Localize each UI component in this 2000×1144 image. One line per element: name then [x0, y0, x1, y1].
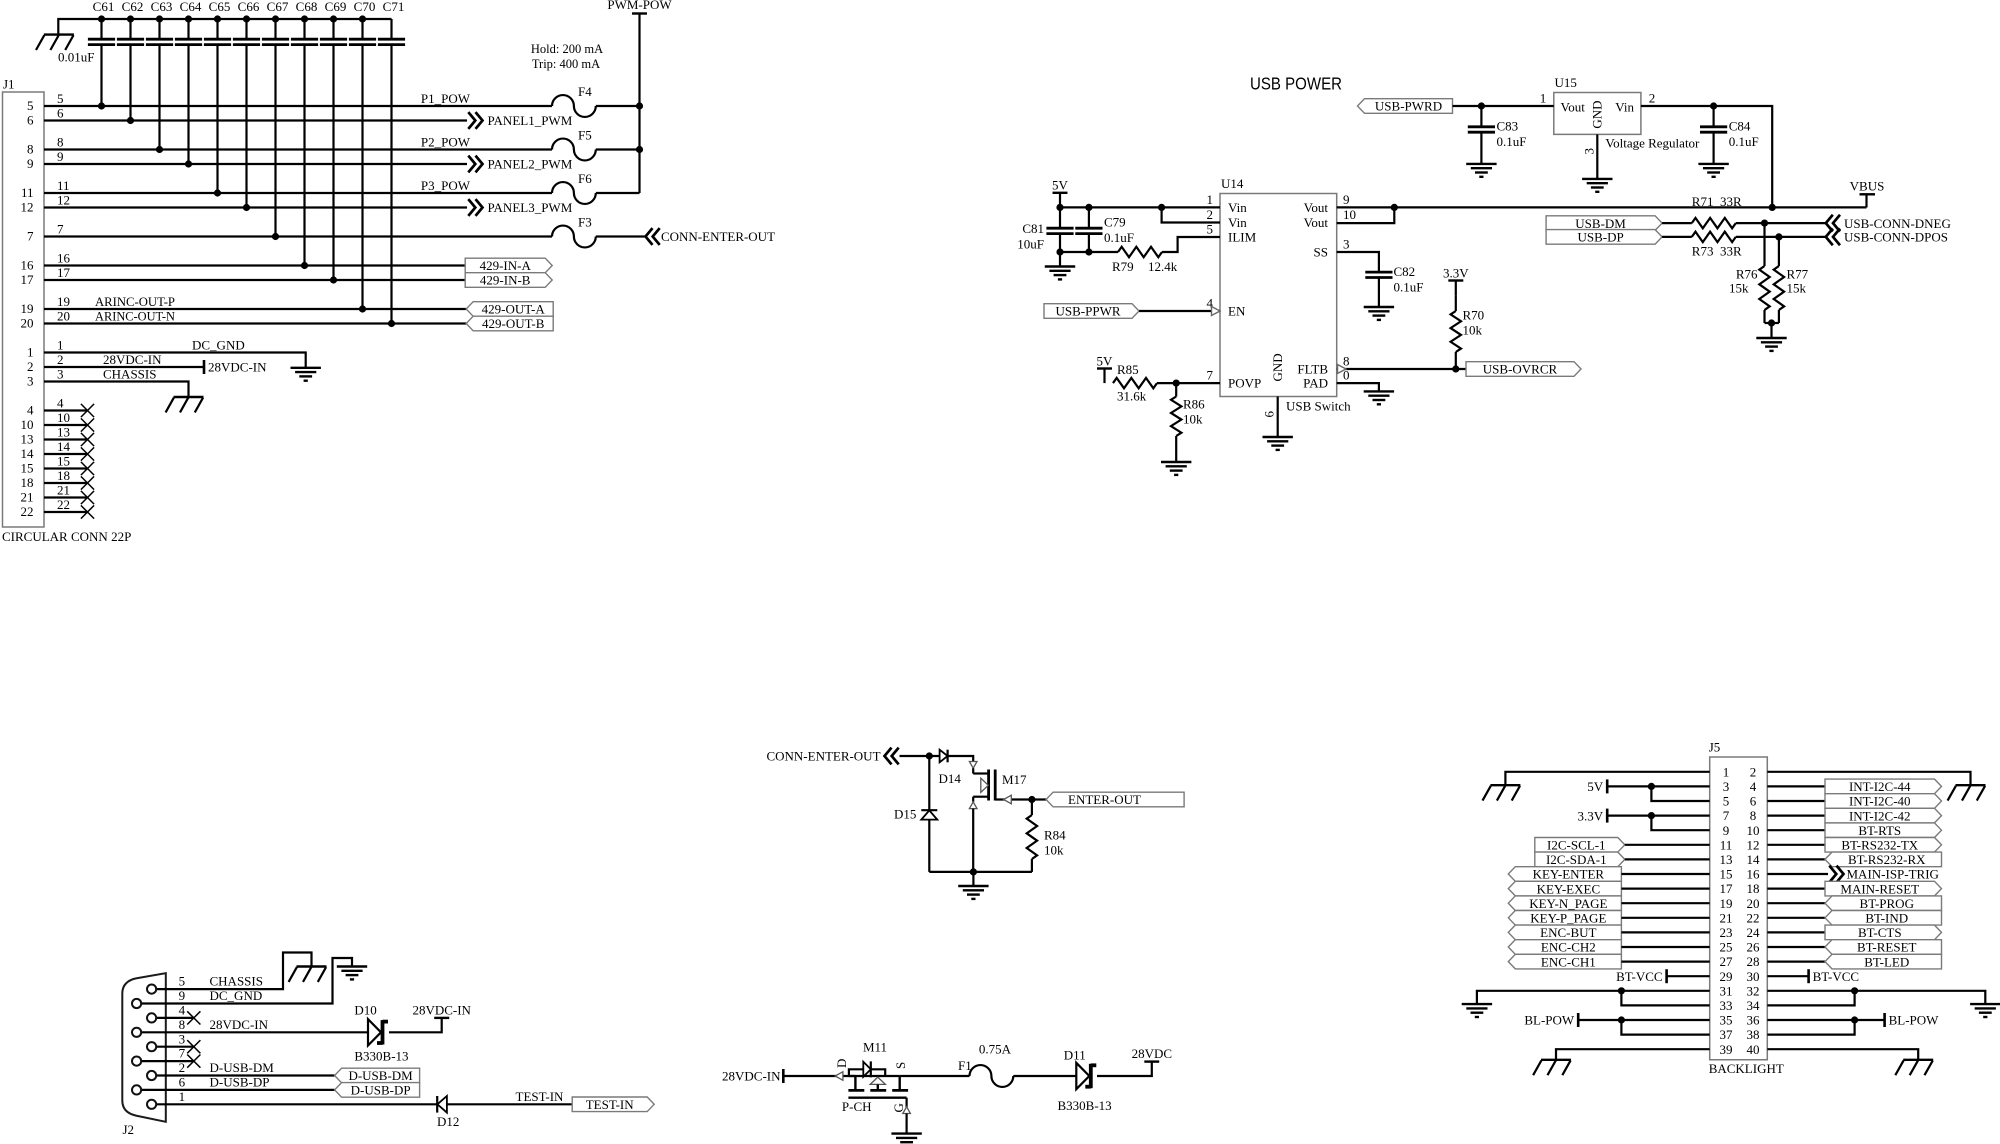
J2 pin6 number	[179, 1075, 186, 1090]
U14 left pin names	[1228, 200, 1261, 391]
junction C79 bottom	[1085, 248, 1092, 255]
svg-text:R76: R76	[1736, 266, 1758, 281]
connector J1 body	[3, 77, 45, 528]
svg-text:6: 6	[1262, 411, 1277, 418]
svg-text:R70: R70	[1463, 308, 1485, 323]
J1 pin1 numbers	[27, 337, 64, 359]
earth ground R76/R77	[1756, 338, 1786, 351]
svg-text:8: 8	[57, 134, 64, 149]
svg-text:C62: C62	[122, 0, 144, 14]
wire USB-DM to R71	[1662, 222, 1692, 224]
svg-text:USB-CONN-DNEG: USB-CONN-DNEG	[1844, 216, 1951, 231]
power flag BL-POW (right)	[1885, 1013, 1940, 1028]
svg-text:3.3V: 3.3V	[1443, 265, 1469, 280]
wire U15 pin3 to ground	[1596, 134, 1598, 179]
svg-text:8: 8	[1750, 808, 1757, 823]
wire 28VDC-IN to M11 drain	[783, 1075, 855, 1077]
svg-text:13: 13	[1720, 852, 1733, 867]
wire J1 pin8 P2_POW	[44, 148, 640, 150]
wire 3.3V to J5 pin7	[1607, 814, 1710, 816]
svg-text:39: 39	[1720, 1042, 1733, 1057]
svg-text:M11: M11	[863, 1040, 887, 1055]
junction 5V/C81	[1056, 204, 1063, 211]
net flag ENTER-OUT	[1046, 792, 1184, 807]
wire ENTER-OUT bottom rail	[929, 871, 1032, 873]
transistor M11	[834, 1040, 908, 1115]
resistor R77	[1774, 237, 1809, 323]
svg-text:14: 14	[57, 439, 71, 454]
net flag KEY-EXEC	[1508, 881, 1621, 896]
J2 pin1 number	[179, 1089, 186, 1104]
earth ground J5 pin32	[1970, 1004, 2000, 1017]
svg-text:40: 40	[1747, 1042, 1760, 1057]
net label USB-CONN-DNEG	[1826, 215, 1951, 232]
resistor R86	[1171, 383, 1205, 462]
J1 pin12 numbers	[21, 192, 71, 214]
U15 label Voltage Regulator	[1605, 136, 1700, 151]
svg-text:10: 10	[21, 417, 34, 432]
diode D11 (schottky)	[1058, 1048, 1112, 1114]
svg-text:C61: C61	[93, 0, 115, 14]
wire D11 to 28VDC flag	[1097, 1062, 1152, 1076]
wire KEY-ENTER to J5 pin15	[1621, 873, 1709, 875]
wire J5 pin31 to ground	[1477, 991, 1710, 1004]
svg-text:19: 19	[57, 294, 70, 309]
capacitor C68	[291, 0, 318, 269]
wire J5 pin33 branch	[1621, 991, 1709, 1006]
wire M11 gate to ground	[905, 1114, 907, 1134]
wire D10 to 28VDC-IN flag	[389, 1018, 442, 1032]
svg-text:C84: C84	[1729, 119, 1751, 134]
earth ground R86	[1161, 462, 1191, 475]
power flag PWM-POW	[607, 0, 672, 14]
wire USB-PWRD to U15 pin1	[1453, 105, 1554, 107]
svg-text:EN: EN	[1228, 304, 1246, 319]
svg-text:J5: J5	[1709, 740, 1721, 755]
svg-text:BL-POW: BL-POW	[1524, 1013, 1575, 1028]
chassis ground J1 pin3	[166, 397, 204, 412]
svg-text:13: 13	[57, 424, 70, 439]
net flag ENC-CH1	[1508, 954, 1621, 969]
annotation Hold/Trip	[531, 42, 603, 71]
net label PANEL3_PWM	[468, 199, 572, 216]
power flag BL-POW (left)	[1524, 1013, 1578, 1028]
wire J1 pin7 CONN-ENTER-OUT	[44, 235, 645, 237]
J5 pin numbers 33/34	[1720, 998, 1761, 1013]
svg-text:15k: 15k	[1787, 281, 1807, 296]
svg-text:USB-PPWR: USB-PPWR	[1055, 304, 1120, 319]
wire J5 pin22 to BT-IND	[1767, 917, 1825, 919]
svg-text:ARINC-OUT-N: ARINC-OUT-N	[95, 308, 176, 323]
wire J5 pin34 branch	[1767, 991, 1854, 1006]
svg-text:27: 27	[1720, 954, 1734, 969]
J1 pin20 numbers	[21, 308, 71, 330]
svg-text:21: 21	[1720, 910, 1733, 925]
wire J1 pin20 ARINC-OUT-N	[44, 322, 466, 324]
connector J5 name BACKLIGHT	[1709, 1061, 1784, 1076]
resistor R70	[1443, 265, 1484, 369]
junction R84 top	[1028, 796, 1035, 803]
svg-text:C69: C69	[325, 0, 347, 14]
J2 pin circle 5	[147, 1042, 156, 1051]
wire I2C-SDA-1 to J5 pin13	[1625, 858, 1710, 860]
net flag BT-RTS	[1825, 823, 1942, 838]
svg-text:P-CH: P-CH	[842, 1099, 872, 1114]
svg-text:INT-I2C-40: INT-I2C-40	[1849, 794, 1911, 809]
capacitor C70	[349, 0, 376, 313]
wire KEY-N_PAGE to J5 pin19	[1621, 902, 1709, 904]
svg-text:15k: 15k	[1729, 281, 1749, 296]
J5 pin numbers 7/8	[1723, 808, 1757, 823]
svg-text:18: 18	[1747, 881, 1760, 896]
net label 28VDC-IN (J1)	[103, 352, 162, 367]
net label P1_POW	[421, 91, 471, 106]
svg-text:Vout: Vout	[1304, 200, 1329, 215]
junction PWM-POW/F5	[636, 146, 643, 153]
svg-text:INT-I2C-44: INT-I2C-44	[1849, 779, 1911, 794]
svg-text:BT-RS232-TX: BT-RS232-TX	[1841, 838, 1918, 853]
capacitor C84	[1700, 106, 1759, 164]
J2 pin circle 4	[132, 1028, 141, 1037]
svg-text:7: 7	[1207, 368, 1214, 383]
wire U14 Vout pin10 branch	[1337, 207, 1395, 223]
svg-text:28VDC-IN: 28VDC-IN	[208, 360, 267, 375]
svg-text:15: 15	[21, 461, 34, 476]
svg-text:3: 3	[1582, 148, 1597, 155]
chassis ground J5 pin2	[1948, 785, 1986, 800]
J1 pin8 numbers	[27, 134, 64, 156]
svg-text:USB POWER: USB POWER	[1250, 74, 1342, 94]
J1 pin9 numbers	[27, 149, 64, 171]
junction J5 pin31/33	[1618, 987, 1625, 994]
wire CONN-ENTER-OUT to D14	[900, 755, 940, 757]
svg-text:16: 16	[1747, 867, 1761, 882]
earth ground J5 pin31	[1462, 1004, 1492, 1017]
svg-text:22: 22	[57, 497, 70, 512]
svg-text:TEST-IN: TEST-IN	[516, 1089, 565, 1104]
wire R85 to POVP pin7	[1157, 382, 1220, 384]
J5 pin numbers 13/14	[1720, 852, 1761, 867]
svg-text:CIRCULAR CONN 22P: CIRCULAR CONN 22P	[2, 529, 131, 544]
svg-text:28VDC: 28VDC	[1132, 1046, 1172, 1061]
J1 pin21 numbers	[21, 482, 71, 504]
svg-text:PANEL1_PWM: PANEL1_PWM	[488, 113, 573, 128]
fuse F6	[552, 171, 596, 204]
J2 pin4 number	[179, 1003, 186, 1018]
svg-text:U15: U15	[1555, 75, 1577, 90]
wire J5 pin16 to MAIN-ISP-TRIG	[1767, 873, 1828, 875]
wire J1 pin19 ARINC-OUT-P	[44, 308, 466, 310]
J2 pin circle 9	[147, 1100, 156, 1109]
wire U14 Vout pin9 rail	[1337, 206, 1867, 208]
wire J1 pin14 no-connect	[44, 447, 94, 460]
chassis ground at cap bus	[36, 35, 74, 50]
J5 pin numbers 5/6	[1723, 794, 1757, 809]
svg-text:15: 15	[57, 453, 70, 468]
svg-text:2: 2	[1750, 764, 1757, 779]
net label TEST-IN	[516, 1089, 565, 1104]
net label MAIN-ISP-TRIG	[1829, 866, 1939, 883]
svg-text:R71 33R: R71 33R	[1692, 194, 1742, 209]
junction C81 bottom	[1056, 248, 1063, 255]
svg-text:12.4k: 12.4k	[1148, 259, 1178, 274]
svg-text:429-IN-B: 429-IN-B	[480, 273, 531, 288]
svg-text:22: 22	[21, 504, 34, 519]
svg-text:R85: R85	[1117, 362, 1139, 377]
capacitor C64	[175, 0, 202, 168]
wire D14 to M17 drain	[948, 756, 974, 762]
svg-text:C83: C83	[1497, 119, 1519, 134]
svg-text:2: 2	[179, 1060, 186, 1075]
wire J5 pin38 branch	[1767, 1020, 1854, 1035]
earth ground PAD	[1364, 391, 1394, 404]
IC U15 body	[1554, 75, 1641, 134]
capacitor C71	[378, 0, 405, 327]
svg-text:22: 22	[1747, 910, 1760, 925]
svg-text:D-USB-DM: D-USB-DM	[210, 1060, 275, 1075]
net flag BT-RS232-RX	[1825, 852, 1942, 867]
wire U14 GND pin6	[1277, 397, 1279, 438]
J5 pin numbers 27/28	[1720, 954, 1760, 969]
wire C81 to ground	[1059, 252, 1061, 267]
wire J1 pin11 P3_POW	[44, 192, 640, 194]
svg-text:R77: R77	[1787, 266, 1809, 281]
svg-text:0: 0	[1343, 368, 1350, 383]
net label P2_POW	[421, 134, 471, 149]
wire J5 pin30 to BT-VCC	[1767, 975, 1808, 977]
earth ground C81	[1045, 267, 1075, 280]
J1 pin16 numbers	[21, 250, 71, 272]
wire J5 pin9 branch	[1651, 816, 1709, 831]
resistor R76	[1729, 223, 1770, 323]
wire ENC-BUT to J5 pin23	[1621, 931, 1709, 933]
svg-text:C71: C71	[383, 0, 405, 14]
svg-text:32: 32	[1747, 983, 1760, 998]
J2 pin2 number	[179, 1060, 186, 1075]
wire J2 pin4 no-connect	[157, 1011, 201, 1024]
wire J2 pin3 no-connect	[157, 1040, 201, 1053]
wire U15 pin2 to VBUS rail	[1641, 106, 1772, 207]
wire J2 pin6 D-USB-DP	[142, 1089, 335, 1091]
net label 28VDC-IN (J2)	[210, 1017, 269, 1032]
wire J1 pin16 429-IN-A	[44, 264, 465, 266]
net label D-USB-DM	[210, 1060, 275, 1075]
svg-text:BACKLIGHT: BACKLIGHT	[1709, 1061, 1784, 1076]
svg-text:21: 21	[57, 482, 70, 497]
resistor R85	[1113, 362, 1157, 404]
net label CONN-ENTER-OUT (bottom)	[767, 748, 899, 765]
svg-text:J2: J2	[123, 1122, 135, 1137]
wire J5 pin2 to chassis	[1767, 772, 1970, 785]
M11 drain arrow	[835, 1072, 843, 1081]
earth ground U15 pin3	[1582, 179, 1612, 192]
net flag KEY-ENTER	[1508, 867, 1621, 882]
svg-text:4: 4	[57, 395, 64, 410]
svg-text:20: 20	[21, 316, 34, 331]
net label P3_POW	[421, 178, 471, 193]
svg-text:R86: R86	[1183, 397, 1205, 412]
svg-text:11: 11	[21, 185, 34, 200]
svg-text:2: 2	[1207, 207, 1214, 222]
svg-text:M17: M17	[1002, 772, 1027, 787]
svg-text:15: 15	[1720, 867, 1733, 882]
svg-text:D10: D10	[354, 1003, 376, 1018]
wire J5 pin37 branch	[1621, 1020, 1709, 1035]
wire bottom rail to ground	[972, 872, 974, 886]
junction J5 pin7/pin9	[1648, 812, 1655, 819]
U14 pin9 number	[1343, 192, 1350, 207]
U14 pin0 number	[1343, 368, 1350, 383]
svg-text:10: 10	[1747, 823, 1760, 838]
svg-text:33: 33	[1720, 998, 1733, 1013]
svg-text:38: 38	[1747, 1027, 1760, 1042]
svg-text:3.3V: 3.3V	[1578, 808, 1604, 823]
net flag ENC-BUT	[1508, 925, 1621, 940]
J2 pin circle 8	[132, 1085, 141, 1094]
svg-text:ENC-CH2: ENC-CH2	[1541, 940, 1596, 955]
chassis ground J5 pin39	[1533, 1060, 1571, 1075]
earth ground ENTER-OUT	[958, 886, 988, 899]
wire J5 pin12 to BT-RS232-TX	[1767, 844, 1825, 846]
svg-text:B330B-13: B330B-13	[1058, 1098, 1112, 1113]
svg-text:8: 8	[1343, 354, 1350, 369]
svg-text:BT-VCC: BT-VCC	[1616, 969, 1662, 984]
wire U14 Vin pin2 branch	[1162, 207, 1220, 222]
wire J5 pin32 to ground	[1767, 991, 1985, 1004]
svg-text:28VDC-IN: 28VDC-IN	[412, 1002, 471, 1017]
connector J1 name	[2, 529, 131, 544]
J1 pin13 numbers	[21, 424, 71, 446]
svg-text:2: 2	[27, 359, 34, 374]
fuse F3	[552, 214, 596, 247]
svg-text:9: 9	[27, 156, 34, 171]
net flag INT-I2C-42	[1825, 808, 1942, 823]
svg-text:Vout: Vout	[1561, 100, 1586, 115]
svg-text:11: 11	[57, 178, 70, 193]
fuse F4	[552, 84, 596, 117]
svg-text:28VDC-IN: 28VDC-IN	[103, 352, 162, 367]
svg-text:16: 16	[21, 258, 35, 273]
svg-text:BL-POW: BL-POW	[1889, 1013, 1940, 1028]
earth ground C82	[1364, 307, 1394, 320]
J1 pin18 numbers	[21, 468, 71, 490]
svg-text:26: 26	[1747, 940, 1761, 955]
svg-text:R84: R84	[1044, 828, 1066, 843]
svg-text:7: 7	[27, 229, 34, 244]
svg-text:10uF: 10uF	[1017, 237, 1044, 252]
svg-text:9: 9	[1723, 823, 1730, 838]
earth ground DC_GND	[291, 368, 321, 381]
svg-text:S: S	[893, 1062, 908, 1069]
power flag 28VDC-IN (M11)	[722, 1069, 783, 1084]
wire J5 pin5 branch	[1651, 786, 1709, 801]
svg-text:TEST-IN: TEST-IN	[586, 1097, 635, 1112]
svg-text:U14: U14	[1221, 176, 1244, 191]
svg-text:1: 1	[179, 1089, 186, 1104]
earth ground M11 gate	[891, 1134, 921, 1144]
wire J5 pin40 to chassis	[1767, 1049, 1918, 1060]
svg-text:5: 5	[1207, 222, 1214, 237]
svg-text:ENTER-OUT: ENTER-OUT	[1068, 792, 1141, 807]
capacitor C62	[117, 0, 144, 124]
J1 pin6 numbers	[27, 105, 64, 127]
wire J5 pin28 to BT-LED	[1767, 960, 1825, 962]
earth ground U14 pin6	[1263, 437, 1293, 450]
svg-text:1: 1	[1540, 90, 1547, 105]
U14 GND pin name	[1270, 353, 1285, 381]
J1 pin17 numbers	[21, 265, 71, 287]
J2 pin circle 1	[147, 985, 156, 994]
wire J5 pin36 to BL-POW	[1767, 1019, 1884, 1021]
svg-text:Hold: 200 mA: Hold: 200 mA	[531, 42, 603, 56]
earth ground C83	[1466, 164, 1496, 177]
svg-text:BT-CTS: BT-CTS	[1858, 925, 1902, 940]
junction R76 top	[1761, 220, 1768, 227]
svg-text:1: 1	[1723, 764, 1730, 779]
J1 pin15 numbers	[21, 453, 71, 475]
wire BT-VCC to J5 pin29	[1667, 975, 1710, 977]
wire J5 pin39 to chassis	[1556, 1049, 1710, 1060]
net flag USB-DM	[1546, 216, 1662, 231]
svg-text:12: 12	[57, 192, 70, 207]
junction R70/FLTB	[1452, 365, 1459, 372]
wire J1 pin15 no-connect	[44, 462, 94, 475]
U14 right pin names	[1297, 200, 1328, 391]
svg-text:10k: 10k	[1183, 412, 1203, 427]
power flag 5V (U14 Vin)	[1052, 178, 1069, 208]
svg-text:ILIM: ILIM	[1228, 230, 1257, 245]
net flag INT-I2C-44	[1825, 779, 1942, 794]
U14 label USB Switch	[1286, 399, 1351, 414]
J1 pin4 numbers	[27, 395, 64, 417]
wire KEY-EXEC to J5 pin17	[1621, 887, 1709, 889]
wire 5V to J5 pin3	[1607, 785, 1710, 787]
wire USB-DP to R73	[1662, 236, 1692, 238]
svg-text:BT-VCC: BT-VCC	[1813, 969, 1859, 984]
transistor M17	[969, 762, 1027, 872]
svg-text:5: 5	[27, 98, 34, 113]
J2 pin circle 6	[132, 1057, 141, 1066]
svg-text:D11: D11	[1064, 1048, 1086, 1063]
U14 pin3 number	[1343, 237, 1350, 252]
diode D15	[894, 756, 937, 872]
power flag BT-VCC (right)	[1809, 969, 1859, 984]
J2 pin8 number	[179, 1017, 186, 1032]
svg-text:B330B-13: B330B-13	[354, 1049, 408, 1064]
svg-text:F1: F1	[958, 1058, 972, 1073]
svg-text:ENC-CH1: ENC-CH1	[1541, 954, 1596, 969]
svg-text:J1: J1	[3, 77, 15, 92]
svg-text:8: 8	[27, 142, 34, 157]
wire J1 pin4 no-connect	[44, 404, 94, 417]
junction PWM-POW/F4	[636, 102, 643, 109]
J5 pin numbers 23/24	[1720, 925, 1761, 940]
wire R76/R77 bottom	[1765, 323, 1779, 338]
svg-text:14: 14	[21, 446, 35, 461]
svg-text:10: 10	[1343, 207, 1356, 222]
svg-text:D12: D12	[437, 1114, 459, 1129]
svg-text:20: 20	[57, 308, 70, 323]
svg-text:3: 3	[179, 1031, 186, 1046]
net flag KEY-P_PAGE	[1508, 911, 1621, 926]
wire J2 pin1 to D12	[157, 1103, 437, 1105]
wire J2 pin8 28VDC-IN	[142, 1031, 368, 1033]
svg-text:Vin: Vin	[1615, 100, 1634, 115]
J2 pin7 number	[179, 1046, 186, 1061]
J2 pin9 number	[179, 988, 186, 1003]
junction D15 branch	[926, 752, 933, 759]
junction Vin2 branch	[1158, 204, 1165, 211]
